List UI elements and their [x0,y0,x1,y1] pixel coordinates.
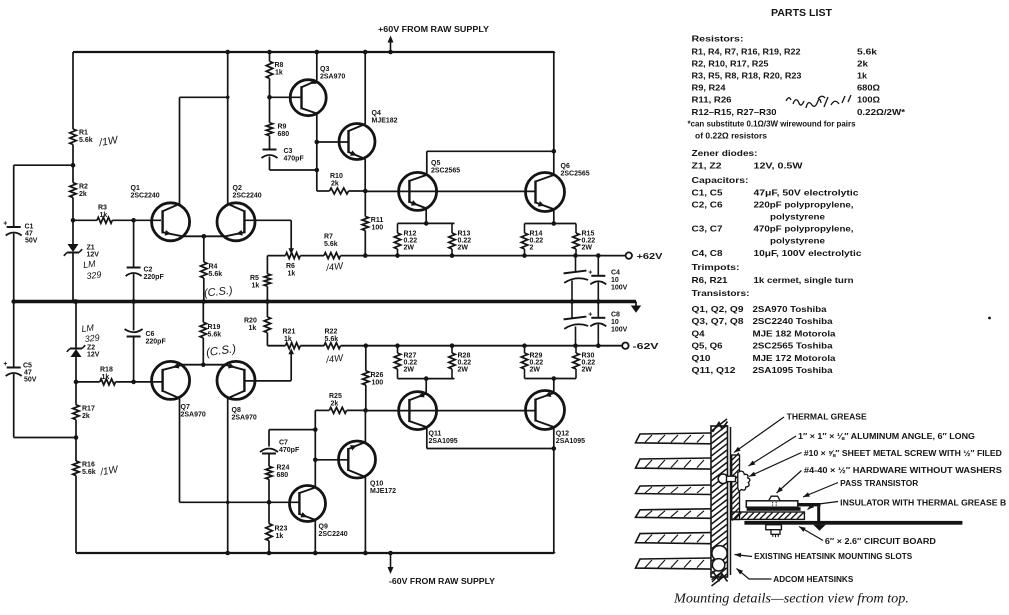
wire R3 lead left [73,219,97,221]
parts footnote line 1 [688,119,856,128]
transistor Q11 [399,392,437,430]
svg-text:5.6k: 5.6k [324,241,338,248]
svg-text:R3, R5, R8, R18, R20, R23: R3, R5, R8, R18, R20, R23 [692,72,802,81]
wire R2 to Z1 node [71,198,76,245]
label R21 1k [283,329,296,344]
label R13 0.22 2W [458,231,472,252]
svg-text:R13: R13 [458,231,471,238]
wire R10 to node [349,190,366,192]
svg-text:R30: R30 [582,353,595,360]
svg-text:C2: C2 [144,267,153,274]
svg-text:470pF: 470pF [284,156,305,163]
resistor R22 [324,343,341,349]
svg-text:0.22: 0.22 [404,360,418,367]
wire R14-R15 header [525,223,577,225]
wire Q9 base lead [269,501,299,503]
parts row C1 C5 [692,188,860,197]
svg-text:Z1: Z1 [87,245,95,252]
parts list heading Transistors [692,288,750,298]
svg-text:of 0.22Ω resistors: of 0.22Ω resistors [695,132,767,141]
svg-text:R12–R15, R27–R30: R12–R15, R27–R30 [692,108,777,117]
svg-text:PARTS LIST: PARTS LIST [771,7,833,19]
label R10 2k [330,173,343,188]
svg-text:C1, C5: C1, C5 [692,188,724,197]
svg-text:#4-40 × ½″ HARDWARE WITHOUT WA: #4-40 × ½″ HARDWARE WITHOUT WASHERS [804,466,1003,475]
svg-text:2SA970: 2SA970 [181,412,206,419]
wire C7 to Q9 collector line [269,427,318,446]
label EXISTING HEATSINK MOUNTING SLOTS [735,552,913,561]
wire -62V rail [267,343,622,348]
wire Q11 emitter [424,376,429,393]
svg-text:R22: R22 [325,329,338,336]
sheet metal screw [718,471,750,491]
wire R10 lead [317,190,330,192]
wire R18 lead [76,381,100,383]
svg-text:5.6k: 5.6k [82,469,96,476]
label R30 0.22 2W [582,353,596,374]
wire C6 to Q7 base node [131,337,136,384]
wire R9 to C3 [269,136,271,150]
heatsink fin 4 [636,509,712,519]
svg-text:1k: 1k [284,336,292,343]
label R9 680 [278,124,290,139]
label C5 47 50V [23,363,37,384]
parts row C2 C6 [692,200,854,209]
wire +60V top supply rail [73,51,555,53]
svg-text:2SC2240 Toshiba: 2SC2240 Toshiba [753,317,834,326]
svg-text:Q5: Q5 [431,160,440,167]
parts row R6 R21 [692,276,854,285]
svg-text:2SC2565: 2SC2565 [561,171,590,178]
trimpot R6 body [286,253,301,259]
wire Q10 collector to rail [363,477,368,555]
resistor R19 lead [202,338,204,365]
wire Q12 emitter [552,376,557,393]
svg-text:2W: 2W [530,367,541,374]
wire to C1 top [14,165,73,227]
resistor R26 [363,371,369,385]
svg-text:1k: 1k [102,374,110,381]
parts row Q4 [692,329,837,338]
svg-text:R1: R1 [79,130,88,137]
svg-text:2W: 2W [582,245,593,252]
resistor R23 [266,524,272,541]
insulator layer (black) [747,507,801,511]
svg-text:R2: R2 [79,184,88,191]
svg-text:+: + [3,221,7,228]
parts row Q10 [692,354,837,363]
svg-text:Trimpots:: Trimpots: [692,262,740,272]
heatsink fin 5 [636,533,712,544]
wire C3 to Q3 collector line [270,157,320,173]
svg-text:THERMAL GREASE: THERMAL GREASE [787,413,868,422]
resistor R20 [264,317,270,333]
svg-text:5.6k: 5.6k [208,332,222,339]
svg-text:-62V: -62V [633,342,660,351]
wire R19 to ground bus [202,302,204,323]
handwritten scribble on parts list [786,95,851,108]
wire Q3 emitter to +60V rail [315,50,320,81]
label -62V [633,342,660,351]
svg-text:R21: R21 [283,329,296,336]
capacitor C6 wire [131,299,136,330]
svg-text:R28: R28 [458,353,471,360]
svg-text:R24: R24 [277,465,290,472]
label R27 0.22 2W [404,353,418,374]
wire Q7 collector down with jog [180,398,228,502]
handwritten 4W at R22 [325,353,345,367]
resistor R30 [573,353,579,369]
svg-text:12V, 0.5W: 12V, 0.5W [754,161,803,170]
transistor Q9 [290,486,326,522]
svg-text:5.6k: 5.6k [857,47,878,56]
svg-text:R4: R4 [209,264,218,271]
label Q10 MJE172 [370,481,396,496]
wire R12-R13 header [398,222,455,224]
svg-text:47: 47 [25,231,33,238]
handwritten /1W at R16 [98,464,120,478]
svg-text:R9, R24: R9, R24 [692,84,726,93]
heatsink mounting face line [730,427,732,575]
svg-text:2k: 2k [331,401,339,408]
parts row Q5 group [692,342,834,351]
svg-text:R6, R21: R6, R21 [692,276,729,285]
resistor R5 [264,274,270,286]
svg-text:R3: R3 [98,205,107,212]
heatsink fin 2 [636,458,712,469]
svg-text:+: + [3,361,7,368]
svg-text:C4, C8: C4, C8 [692,249,724,258]
heatsink fin 6 [636,558,712,569]
parts row polystyrene 2 [770,236,826,245]
svg-text:2W: 2W [404,245,415,252]
label C2 220pF [144,267,165,282]
heatsink spine (hatched bar) [711,419,728,586]
resistor R10 [330,188,349,194]
label R26 100 [371,372,384,387]
wire base bus Q11-Q12 [366,410,536,412]
capacitor C2 [126,268,142,277]
svg-text:Q4: Q4 [692,329,706,338]
svg-text:50V: 50V [25,238,38,245]
capacitor film bypass bottom [563,302,588,346]
label +60V FROM RAW SUPPLY [378,25,490,34]
svg-text:2k: 2k [331,181,339,188]
label R7 5.6k [324,234,338,249]
resistor R14 leads [524,224,526,256]
svg-text:+60V FROM RAW SUPPLY: +60V FROM RAW SUPPLY [378,25,490,34]
svg-text:0.22: 0.22 [582,360,596,367]
capacitor film bypass top [563,256,588,304]
label C4 10 100V [611,270,628,292]
wire +62V rail [267,253,625,258]
svg-text:680Ω: 680Ω [857,84,880,93]
svg-text:1k: 1k [252,283,260,290]
capacitor C8 electrolytic [588,302,606,346]
wire R11 to +62V rail [364,231,366,256]
svg-text:Q11: Q11 [429,431,442,438]
svg-text:C8: C8 [611,312,620,319]
resistor R30 leads [575,346,577,379]
resistor R24 [266,466,272,479]
label R16 5.6k /1W [82,462,96,477]
svg-text:R8: R8 [275,62,284,69]
svg-text:680: 680 [278,131,290,138]
resistor R9 [266,123,272,136]
label R17 2k [82,406,95,421]
resistor R12 leads [397,223,399,255]
label Q3 2SA970 [320,66,345,81]
label THERMAL GREASE [734,413,867,453]
resistor R20 leads [265,299,270,346]
transistor Q3 [290,79,326,116]
wire Q6 collector to +60V rail [553,52,555,175]
svg-text:2SA970 Toshiba: 2SA970 Toshiba [753,305,828,314]
svg-text:PASS TRANSISTOR: PASS TRANSISTOR [840,479,918,488]
wire Z1 to ground bus [73,254,78,304]
resistor R13 leads [451,223,453,255]
wire R16 to -60V rail [75,476,77,554]
resistor R2 [70,183,76,198]
resistor R15 leads [575,224,577,256]
svg-text:Q8: Q8 [232,407,241,414]
wire R8 to Q3 base node [267,78,272,99]
svg-text:2SA1095: 2SA1095 [429,438,458,445]
handwritten (C.S.) at R19 [205,343,237,359]
svg-text:2SA970: 2SA970 [232,415,257,422]
parts row R2 group [692,59,869,68]
aluminum angle vertical leg (hatched) [732,453,740,521]
parts row Q11 group [692,366,834,375]
svg-text:R25: R25 [329,393,342,400]
svg-text:Q10: Q10 [692,354,712,363]
svg-text:EXISTING HEATSINK MOUNTING SLO: EXISTING HEATSINK MOUNTING SLOTS [754,552,913,561]
parts list heading Zener diodes [692,148,758,158]
capacitor C6 [125,329,143,337]
svg-text:#10 × ⅝″ SHEET METAL SCREW WIT: #10 × ⅝″ SHEET METAL SCREW WITH ½″ FILED [804,449,1002,458]
wire Q8 collector to -60V rail [225,398,230,555]
svg-text:C5: C5 [23,363,32,370]
svg-text:MJE 182 Motorola: MJE 182 Motorola [753,329,837,338]
wire Q3 base lead [270,96,302,98]
capacitor C5 electrolytic [3,361,22,376]
svg-text:1″ × 1″ × ⅛″ ALUMINUM ANGLE, 6: 1″ × 1″ × ⅛″ ALUMINUM ANGLE, 6″ LONG [798,432,975,441]
parts row R1 group [692,47,878,56]
svg-text:5.6k: 5.6k [325,336,339,343]
svg-text:*can substitute 0.1Ω/3W wirewo: *can substitute 0.1Ω/3W wirewound for pa… [688,119,856,128]
svg-text:0.22: 0.22 [530,360,544,367]
svg-text:470pF: 470pF [279,447,300,454]
label INSULATOR [808,499,1007,510]
label R14 0.22 2 [530,231,544,252]
transistor Q10 [339,441,376,478]
svg-text:0.22Ω/2W*: 0.22Ω/2W* [857,108,906,117]
svg-text:220pF polypropylene,: 220pF polypropylene, [754,200,854,209]
label R12 0.22 2W [404,231,418,252]
svg-text:Zener diodes:: Zener diodes: [692,148,758,158]
insulator clip bracket [798,503,826,531]
wire R27-R28 header [398,378,455,380]
label Q2 2SC2240 [233,185,262,200]
svg-text:MJE182: MJE182 [372,118,398,125]
caption Mounting details [673,591,909,606]
label Q9 2SC2240 [319,524,348,539]
resistor R3 [97,217,112,223]
label R25 2k [329,393,342,408]
resistor R19 [200,322,206,338]
svg-text:LM: LM [82,258,96,270]
transistor Q6 [526,173,565,212]
wire Q9 emitter to rail [313,520,318,555]
svg-text:Z2: Z2 [87,345,95,352]
parts list heading Trimpots [692,262,740,272]
resistor R25 [329,407,346,413]
svg-text:R5: R5 [250,275,259,282]
svg-text:R1, R4, R7, R16, R19, R22: R1, R4, R7, R16, R19, R22 [692,47,801,56]
svg-text:R20: R20 [244,318,257,325]
label R4 5.6k [209,264,223,279]
wire Q5 emitter [424,208,429,225]
resistor R17 [73,405,79,420]
svg-text:2k: 2k [82,413,90,420]
ground symbol [631,302,641,313]
svg-text:polystyrene: polystyrene [770,212,826,221]
svg-text:2k: 2k [857,59,869,68]
wire bottom rail right corner [554,552,556,553]
svg-text:100Ω: 100Ω [857,96,880,105]
trimpot R21 wiper [288,348,294,380]
transistor Q7 [152,361,190,399]
svg-text:R6: R6 [286,263,295,270]
wire left column top [72,52,74,129]
label Z1 12V [87,245,100,259]
label C1 47 50V [25,224,38,245]
resistor R9 lead [269,97,271,122]
stray period mark [988,317,991,320]
wire Q5 collector [427,149,556,175]
wire C2 to ground bus [131,274,136,304]
handwritten 4W at R7 [325,261,345,275]
svg-text:1k: 1k [100,212,108,219]
wire R4 lead [203,236,205,262]
svg-text:0.22: 0.22 [458,360,472,367]
wire C1 to ground bus [11,234,16,304]
label R23 1k [275,526,288,541]
terminal +62V [626,252,632,258]
label R29 0.22 2W [530,353,544,374]
svg-text:C6: C6 [146,331,155,338]
svg-text:5.6k: 5.6k [79,137,93,144]
label R11 100 [371,217,384,232]
wire R3 to Q1 base node [112,218,161,223]
svg-text:R9: R9 [278,124,287,131]
label R15 0.22 2W [582,231,596,252]
label C6 220pF [146,331,167,346]
capacitor C4 electrolytic [588,256,606,304]
wire Z2 to R18 node [74,357,79,405]
svg-text:+: + [588,270,592,277]
resistor R1 [70,129,76,145]
svg-text:1k: 1k [275,70,283,77]
svg-text:0.22: 0.22 [404,238,418,245]
resistor R11 lead [364,191,366,217]
svg-text:R29: R29 [530,353,543,360]
svg-text:Q6: Q6 [561,163,570,170]
wire Q2 collector to +60V rail [225,50,230,204]
svg-text:R17: R17 [82,406,95,413]
resistor R14 [521,233,527,249]
parts list heading Resistors [692,34,744,44]
label R18 1k [100,367,113,382]
svg-text:220pF: 220pF [144,274,165,281]
svg-text:MJE 172 Motorola: MJE 172 Motorola [753,354,837,363]
svg-text:R10: R10 [330,173,343,180]
svg-text:5.6k: 5.6k [209,271,223,278]
svg-text:Q10: Q10 [370,481,383,488]
parts footnote line 2 [695,132,767,141]
label Q12 2SA1095 [556,431,585,446]
svg-text:+62V: +62V [637,252,664,261]
circuit board (thick bar) [744,521,962,525]
heatsink break symbol bottom [712,568,728,582]
label Q7 2SA970 [181,404,206,419]
label R22 5.6k [325,329,339,344]
label R20 1k [244,318,257,333]
label Q11 2SA1095 [429,431,458,446]
svg-text:-60V FROM RAW SUPPLY: -60V FROM RAW SUPPLY [389,577,496,586]
wire Q3 collector down [315,114,320,192]
resistor R7 [324,253,341,259]
parts list title [771,7,833,19]
resistor R28 [449,353,455,369]
transistor Q4 [339,124,375,160]
svg-text:Z1, Z2: Z1, Z2 [692,161,723,170]
label R1 5.6k [79,130,93,145]
svg-text:0.22: 0.22 [530,238,544,245]
label Q4 MJE182 [372,110,398,125]
svg-text:329: 329 [84,332,100,344]
heatsink break symbol top [713,422,728,433]
capacitor C1 electrolytic [3,221,22,236]
label R5 1k [250,275,259,290]
svg-text:R11: R11 [371,217,384,224]
svg-text:2SC2240: 2SC2240 [131,193,160,200]
svg-text:R14: R14 [530,231,543,238]
terminal -62V [622,343,628,349]
wire Q6 emitter [552,209,557,226]
label -60V FROM RAW SUPPLY [389,577,496,586]
wire R23 to -60V rail [267,541,272,556]
wire -60V bottom supply rail [76,552,555,554]
parts row R3 group [692,72,868,81]
label PASS TRANSISTOR [803,479,918,497]
resistor R4 [201,262,207,278]
svg-text:Q2: Q2 [233,185,242,192]
svg-text:1k: 1k [857,72,867,81]
svg-text:2SC2240: 2SC2240 [319,531,348,538]
parts row polystyrene 1 [770,212,826,221]
svg-text:polystyrene: polystyrene [770,236,826,245]
wire to C5 bottom [14,374,76,438]
wire emitter bus Q7-Q8 [182,362,226,367]
parts row Z1 Z2 [692,161,803,170]
resistor R27 leads [397,346,399,379]
label C8 10 100V [611,312,628,334]
svg-text:2k: 2k [79,191,87,198]
svg-text:Q12: Q12 [556,431,569,438]
handwritten /1W at R1 [97,134,120,149]
wire Q4 emitter down [363,159,368,193]
